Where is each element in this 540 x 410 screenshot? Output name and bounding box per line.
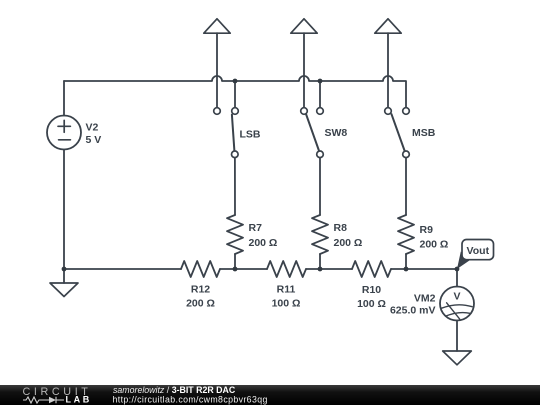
wire R9 to bottom rail <box>405 254 407 269</box>
resistor R10 (horizontal zigzag) <box>352 261 391 277</box>
resistor R12 (horizontal zigzag) <box>181 261 220 277</box>
wire Vout node to voltmeter <box>456 269 458 287</box>
node dot: rail / R9 <box>404 267 409 272</box>
svg-text:R9: R9 <box>420 224 434 236</box>
svg-text:100 Ω: 100 Ω <box>357 298 386 310</box>
svg-text:200 Ω: 200 Ω <box>420 239 449 251</box>
svg-text:R11: R11 <box>277 284 296 296</box>
svg-text:100 Ω: 100 Ω <box>272 298 301 310</box>
voltmeter VM2 <box>440 287 474 321</box>
power flag F2 (up triangle, SW8 branch) <box>291 19 317 33</box>
resistor R9 (vertical zigzag) <box>398 215 414 254</box>
wire bus to LSB right throw <box>234 81 236 108</box>
svg-text:R8: R8 <box>334 222 348 234</box>
power flag F3 (up triangle, MSB branch) <box>375 19 401 33</box>
wire LSB common to R7 <box>234 158 236 215</box>
svg-text:http://circuitlab.com/cwm8cpbv: http://circuitlab.com/cwm8cpbvr63qg <box>113 395 268 405</box>
wire flag F3 to MSB left throw <box>387 33 389 107</box>
ground GND1 under V2 <box>50 269 78 297</box>
switch MSB (SPDT, thrown to flag side) <box>385 108 410 158</box>
node dot: rail / R7 <box>233 267 238 272</box>
wire rail R12 to R11 <box>220 268 267 270</box>
wire flag F2 to SW8 left throw <box>303 33 305 107</box>
wire R8 to bottom rail <box>319 254 321 269</box>
wire V2 top lead <box>63 81 65 116</box>
svg-text:SW8: SW8 <box>325 127 348 139</box>
svg-text:V: V <box>453 290 460 302</box>
svg-text:625.0 mV: 625.0 mV <box>390 304 436 316</box>
wire VM2 to ground <box>456 321 458 352</box>
resistor R8 (vertical zigzag) <box>312 215 328 254</box>
wire bottom rail segment ground to R12 <box>64 268 181 270</box>
wire rail R10 to Vout node <box>391 268 457 270</box>
wire flag F1 to LSB left throw <box>216 33 218 107</box>
node flag Vout <box>457 240 494 270</box>
resistor R11 (horizontal zigzag) <box>267 261 306 277</box>
svg-text:200 Ω: 200 Ω <box>186 298 215 310</box>
wire top bus from V2 to MSB throw, with crossover humps <box>64 76 406 108</box>
node dot: bus / LSB throw <box>233 79 238 84</box>
node dot: rail / R8 <box>318 267 323 272</box>
wire bus to SW8 right throw <box>319 81 321 108</box>
node dot: ground / V2 <box>62 267 67 272</box>
svg-text:MSB: MSB <box>412 127 436 139</box>
wire R7 to bottom rail <box>234 254 236 269</box>
wire rail R11 to R10 <box>306 268 352 270</box>
node dot: bus / SW8 throw <box>318 79 323 84</box>
svg-text:R12: R12 <box>191 284 210 296</box>
wire V2 bottom lead to ground node <box>63 150 65 270</box>
power flag F1 (up triangle, LSB branch) <box>204 19 230 33</box>
svg-text:Vout: Vout <box>467 245 490 257</box>
svg-text:VM2: VM2 <box>414 293 436 305</box>
svg-text:LSB: LSB <box>240 129 261 141</box>
svg-text:5 V: 5 V <box>86 134 102 146</box>
svg-text:R10: R10 <box>362 284 381 296</box>
switch LSB (SPDT, thrown to bus side) <box>214 108 239 158</box>
voltage source V2 <box>47 116 81 150</box>
svg-text:LAB: LAB <box>66 395 92 405</box>
svg-text:R7: R7 <box>249 222 263 234</box>
wire MSB common to R9 <box>405 158 407 215</box>
node dot: Vout <box>455 267 460 272</box>
ground GND2 under VM2 <box>443 351 472 365</box>
svg-text:200 Ω: 200 Ω <box>334 237 363 249</box>
resistor R7 (vertical zigzag) <box>227 215 243 254</box>
svg-text:V2: V2 <box>86 122 99 134</box>
switch SW8 (SPDT, thrown to flag side) <box>301 108 324 158</box>
svg-text:200 Ω: 200 Ω <box>249 237 278 249</box>
CircuitLab logo schematic squiggle (resistor + diode) <box>23 397 64 403</box>
wire SW8 common to R8 <box>319 158 321 215</box>
